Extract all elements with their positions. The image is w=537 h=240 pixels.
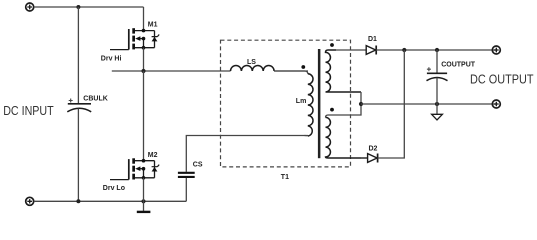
wire CBULK top [77, 7, 79, 104]
node COUTPUT bottom [435, 102, 439, 106]
node COUTPUT top [435, 48, 439, 52]
svg-text:DC OUTPUT: DC OUTPUT [470, 72, 534, 86]
diode D1 [366, 46, 376, 55]
svg-text:M2: M2 [148, 152, 158, 159]
wire M1 source to mid node [143, 48, 145, 71]
wire CBULK bottom [77, 109, 79, 202]
svg-text:Drv Hi: Drv Hi [101, 56, 122, 63]
wire bottom output rail [361, 103, 496, 105]
wire LS to Lm [274, 71, 308, 74]
inductor LS [231, 66, 275, 71]
wire CS bottom [185, 178, 187, 201]
svg-text:T1: T1 [281, 174, 289, 181]
svg-text:COUTPUT: COUTPUT [441, 62, 476, 69]
inductor Lm [308, 74, 313, 136]
diode D2 [368, 154, 378, 163]
wire D1 cathode / top output rail [376, 49, 496, 51]
wire D2 cathode up to top rail [378, 50, 405, 158]
capacitor CS [178, 172, 195, 174]
svg-text:D2: D2 [369, 146, 378, 153]
svg-text:CS: CS [193, 161, 203, 168]
wire center tap loop [326, 92, 362, 117]
dashed box T1 [221, 40, 351, 167]
wire M1 drain [143, 7, 145, 31]
transistor M1 [110, 28, 159, 49]
wire bottom rail [34, 200, 187, 202]
svg-text:LS: LS [247, 59, 256, 66]
ground bar [143, 201, 145, 211]
transistor M2 [110, 158, 159, 179]
wire COUTPUT top [436, 50, 438, 73]
wire mid rail [112, 70, 308, 72]
wire COUTPUT bottom [436, 78, 438, 104]
terminal input plus [26, 3, 34, 11]
svg-text:CBULK: CBULK [83, 95, 108, 102]
svg-text:Drv Lo: Drv Lo [103, 185, 125, 192]
wire Lm bottom [305, 135, 308, 137]
node mid junction [141, 69, 145, 73]
wire D2 anode [361, 157, 368, 159]
svg-text:Lm: Lm [296, 98, 307, 105]
terminal input minus [26, 197, 34, 205]
node center tap junction [359, 102, 363, 106]
svg-text:DC INPUT: DC INPUT [3, 104, 54, 118]
wire D1 anode [336, 49, 366, 51]
wire CS branch top [186, 136, 308, 172]
winding secondary top [326, 50, 362, 92]
capacitor COUTPUT [427, 72, 447, 74]
svg-text:M1: M1 [148, 21, 158, 28]
node primary dot [301, 65, 305, 69]
ground output [436, 104, 438, 114]
wire top rail [34, 6, 144, 8]
winding secondary bottom [326, 117, 368, 158]
node D1 D2 junction [402, 48, 406, 52]
capacitor CBULK [68, 103, 91, 105]
transformer core [318, 49, 321, 158]
svg-text:D1: D1 [368, 36, 377, 43]
terminal output plus [492, 46, 500, 54]
node bottom rail CBULK [76, 199, 80, 203]
wire M2 drain [143, 71, 145, 161]
node bottom rail M2 source [141, 199, 145, 203]
node secondary mid dot [330, 108, 334, 112]
wire M2 source to bottom rail [143, 178, 145, 202]
terminal output minus [492, 100, 500, 108]
node top rail CBULK tap [76, 5, 80, 9]
node secondary top dot [330, 43, 334, 47]
